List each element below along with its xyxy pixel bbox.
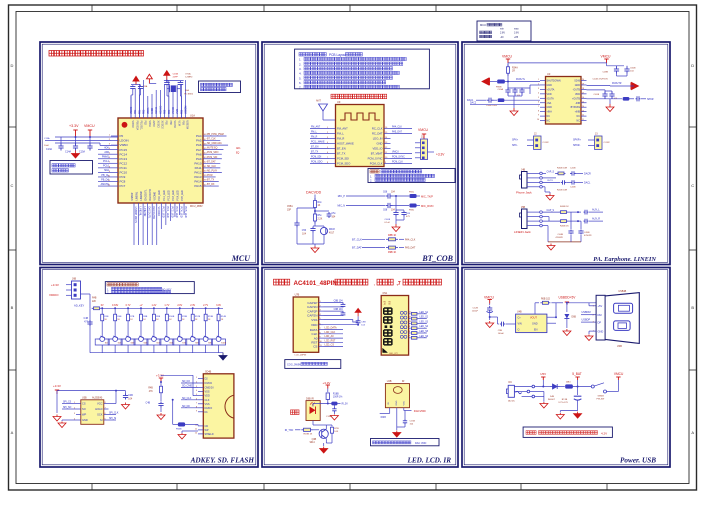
capacitor C14B ir: [326, 405, 338, 420]
svg-text:BT_EN: BT_EN: [337, 147, 346, 151]
svg-text:D9B IR: D9B IR: [306, 397, 314, 400]
PA right pin NC: [577, 115, 587, 118]
flash left pin WP: [74, 413, 87, 417]
svg-text:10: 10: [537, 119, 539, 121]
linein jack contact 3: [527, 220, 542, 223]
svg-text:BT_VBAT: BT_VBAT: [371, 152, 383, 156]
key switch S2B: [108, 334, 122, 353]
wire cap_s row: [542, 170, 557, 173]
svg-text:PB9: PB9: [182, 121, 184, 126]
key switch S1B: [95, 334, 109, 353]
svg-text:LCD_CLK: LCD_CLK: [325, 331, 336, 334]
svg-text:MCU: MCU: [480, 23, 486, 27]
svg-text:PC11: PC11: [120, 166, 128, 170]
LCD pin CLK: [311, 331, 343, 336]
regulator U4B: [516, 311, 547, 333]
svg-text:PCM_SYNC: PCM_SYNC: [368, 157, 383, 161]
PA left pin GND: [538, 84, 552, 87]
svg-text:VMCU: VMCU: [84, 124, 95, 128]
svg-text:C47A: C47A: [594, 93, 600, 96]
svg-text:S3B: S3B: [131, 343, 136, 345]
note box crystal: [199, 81, 241, 93]
BT module left pin PCM_SDO: [310, 162, 350, 166]
svg-text:+85: +85: [514, 36, 519, 39]
SD pin VSS: [196, 402, 210, 406]
DC jack DC4B: [506, 381, 521, 402]
adkey branch resistor R14B: [216, 304, 226, 334]
MCU left pin VSBO: [109, 143, 129, 147]
svg-text:9014: 9014: [310, 442, 316, 444]
capacitor C42B linein: [584, 209, 604, 215]
svg-text:PC13: PC13: [120, 157, 128, 161]
MCU bottom pin PC3_LED: [173, 190, 178, 218]
svg-text:PA15: PA15: [194, 184, 201, 188]
svg-text:USBDP: USBDP: [582, 319, 591, 322]
MCU top pin PB6: [169, 80, 171, 126]
wire usb 5v: [567, 303, 596, 306]
svg-text:BT_EN: BT_EN: [311, 147, 319, 149]
svg-text:PCM_SDI: PCM_SDI: [337, 157, 349, 161]
svg-text:PCM_CLK: PCM_CLK: [370, 162, 383, 166]
SD pin VSS: [196, 390, 210, 394]
svg-text:R5B: R5B: [104, 316, 109, 318]
svg-text:R41B 10R: R41B 10R: [557, 190, 568, 192]
svg-text:2.: 2.: [299, 62, 302, 66]
svg-text:PC3_LED: PC3_LED: [173, 190, 175, 201]
svg-text:PA11: PA11: [195, 166, 202, 170]
svg-text:BT_CLK: BT_CLK: [352, 237, 362, 241]
svg-text:GND: GND: [377, 142, 383, 146]
svg-text:POW: POW: [207, 175, 213, 177]
svg-text:C12B: C12B: [473, 308, 479, 310]
PA right pin -OUTB: [573, 88, 587, 91]
LCD pin VDD: [311, 323, 324, 327]
svg-text:1.: 1.: [299, 58, 302, 62]
svg-text:C16B: C16B: [173, 74, 179, 76]
linein jack contact 1: [527, 211, 542, 214]
BT module right pin LDO_IN: [373, 137, 391, 141]
svg-text:SPKR-: SPKR-: [573, 144, 581, 147]
svg-text:7: 7: [538, 106, 539, 108]
svg-text:PA13: PA13: [194, 175, 201, 179]
svg-text:R4B: R4B: [92, 298, 97, 300]
note heading LED panel: [274, 279, 442, 287]
power label VMCU usb panel: [484, 296, 495, 304]
svg-text:LINEINL: LINEINL: [136, 191, 138, 200]
svg-text:PC9: PC9: [120, 175, 126, 179]
wire to left edge: [44, 137, 55, 147]
ground PA left: [510, 108, 518, 116]
zone ticks right: [689, 127, 697, 370]
svg-text:LED_S6: LED_S6: [420, 336, 429, 338]
svg-text:PA4: PA4: [196, 134, 202, 138]
svg-text:C55A: C55A: [287, 205, 293, 208]
MCU top pin XOSCI: [156, 90, 158, 128]
svg-text:PA6: PA6: [196, 143, 202, 147]
svg-text:GND: GND: [532, 322, 538, 325]
ground mic: [311, 246, 319, 253]
PA right pin -INB: [575, 101, 586, 104]
LCD pin CAP2P: [307, 309, 323, 313]
power flag VDD lcd: [355, 308, 361, 316]
speaker arrow right: [631, 82, 639, 89]
DC jack contacts: [514, 385, 534, 398]
svg-text:2.2K: 2.2K: [318, 219, 323, 221]
svg-text:DACOUTL: DACOUTL: [148, 207, 151, 220]
PA right pin GND: [575, 84, 587, 87]
capacitor C15A: [79, 137, 93, 154]
key switch S7B: [173, 334, 187, 353]
svg-text:-OUTB: -OUTB: [573, 88, 581, 91]
svg-text:VOUT: VOUT: [530, 316, 537, 319]
svg-text:-INA: -INA: [547, 102, 552, 105]
svg-text:+V: +V: [139, 304, 142, 307]
svg-text:R8B 1K: R8B 1K: [388, 234, 397, 237]
svg-text:PCM_SDI: PCM_SDI: [207, 157, 218, 159]
MCU left pin PC12: [98, 160, 127, 165]
svg-text:C8A: C8A: [143, 85, 148, 88]
capacitor C47A: [587, 90, 608, 99]
svg-text:0.33V: 0.33V: [112, 304, 119, 307]
svg-text:AU25E40: AU25E40: [92, 396, 103, 399]
MCU bottom pin LINEINL: [136, 191, 141, 245]
svg-text:+OUTB: +OUTB: [572, 97, 580, 100]
BT module right pin RC_CLK: [372, 126, 412, 131]
svg-text:R14B: R14B: [221, 316, 227, 318]
IR receiver gnd pin: [393, 408, 401, 437]
BT module left pin FM_R: [310, 137, 344, 141]
power flag VMCU BT: [418, 128, 429, 139]
svg-text:12: 12: [582, 115, 584, 117]
MCU left pin PC11: [98, 165, 127, 170]
svg-text:AC/DC: AC/DC: [508, 400, 515, 403]
PA left pin NC: [537, 119, 550, 122]
capacitor C68: [383, 203, 396, 212]
svg-text:WP: WP: [82, 413, 86, 417]
SD pin CLK: [181, 397, 210, 402]
ground PA right: [606, 104, 614, 112]
wire lcd vdd: [324, 324, 360, 326]
ground linein: [547, 244, 555, 251]
BT module right pin VDD_IO: [372, 147, 390, 151]
USB pin DM: [593, 313, 602, 317]
key switch S10B: [212, 334, 227, 353]
diode D4B: [548, 384, 560, 401]
svg-text:VDDA: VDDA: [147, 107, 150, 114]
PA amplifier U3: [546, 72, 582, 124]
svg-text:ADK: ADK: [104, 146, 109, 149]
ground flash gnd pin: [58, 420, 76, 428]
MCU top pin USBDM: [186, 80, 188, 129]
svg-text:USB4B: USB4B: [618, 290, 626, 293]
svg-text:SD_CLK: SD_CLK: [207, 166, 216, 168]
switch SW4B: [591, 383, 606, 401]
resistor R4B series: [92, 298, 102, 310]
7seg pad circles: [400, 311, 407, 338]
flash right pin SI: [100, 418, 116, 422]
PA right pin BYPASS: [571, 106, 587, 109]
svg-text:HOLD: HOLD: [95, 407, 102, 411]
wire J6B to bus: [81, 294, 91, 308]
transistor Q4B: [310, 421, 329, 445]
svg-text:PB_CL: PB_CL: [101, 174, 109, 177]
svg-text:EN: EN: [534, 328, 538, 331]
svg-text:AD_PLAY: AD_PLAY: [207, 169, 218, 172]
svg-text:C+: C+: [518, 316, 522, 319]
svg-text:PB0/SDA: PB0/SDA: [135, 121, 138, 131]
ground battery filled: [574, 412, 582, 419]
svg-text:10uF: 10uF: [44, 145, 50, 147]
svg-text:Power. USB: Power. USB: [620, 457, 656, 465]
svg-text:+INB: +INB: [575, 111, 581, 114]
linein jack contact 2: [527, 215, 542, 218]
USB connector body: [596, 290, 639, 348]
power label +3.3V flash: [53, 384, 61, 394]
svg-text:SD_D3: SD_D3: [182, 380, 190, 383]
svg-text:C13A: C13A: [44, 137, 50, 140]
PA left pin -INA: [538, 101, 552, 104]
svg-text:PCL1: PCL1: [103, 160, 110, 163]
MCU top pin AVDD: [151, 94, 155, 127]
svg-text:min: min: [500, 28, 505, 31]
svg-text:AVDD: AVDD: [151, 107, 154, 114]
capacitor C14A: [65, 137, 78, 154]
svg-text:R7B: R7B: [130, 316, 135, 318]
svg-text:PC4_LED: PC4_LED: [180, 207, 183, 218]
LCD pin CAP1P: [307, 301, 323, 305]
capacitor C7A: [130, 85, 140, 119]
key switch S4B: [134, 334, 148, 353]
adkey top bus: [102, 307, 224, 309]
svg-text:SPKR+: SPKR+: [573, 139, 582, 142]
svg-text:PB5: PB5: [165, 109, 167, 114]
LCD pin CAP1N: [307, 305, 323, 309]
capacitor C45A: [508, 88, 525, 97]
wire linein L row: [542, 209, 559, 212]
svg-text:DACOUTR: DACOUTR: [152, 207, 155, 220]
svg-text:VDD: VDD: [205, 395, 210, 398]
wire power bus to MCU: [55, 136, 118, 145]
SD pin SHIELD: [195, 433, 214, 437]
svg-text:LED_S2: LED_S2: [420, 317, 429, 319]
svg-text:+INA: +INA: [547, 111, 553, 114]
ground adkey: [219, 353, 227, 361]
svg-text:LCD_48PIN: LCD_48PIN: [295, 355, 307, 357]
svg-text:PC1_LED: PC1_LED: [164, 190, 166, 201]
capacitor C14 crystal left: [164, 81, 170, 96]
note box power: [523, 427, 612, 437]
resistor R4: [314, 198, 323, 210]
MCU power spec table: [477, 21, 531, 41]
svg-text:PA14: PA14: [194, 180, 201, 184]
MCU top pin PB1: [139, 84, 141, 131]
svg-text:FM_ANT: FM_ANT: [337, 127, 348, 131]
svg-text:VDDIO: VDDIO: [49, 293, 59, 297]
svg-text:5.: 5.: [299, 76, 302, 80]
svg-text:1.2V: 1.2V: [151, 304, 156, 307]
svg-text:15P: 15P: [287, 210, 292, 212]
svg-text:USBDM: USBDM: [582, 311, 591, 314]
svg-text:C4B: C4B: [84, 318, 89, 320]
MCU bottom pin DACOUTL: [145, 189, 151, 245]
capacitor C12B: [472, 304, 493, 321]
adkey branch resistor R8B: [139, 304, 147, 334]
USB pin DP: [593, 320, 602, 324]
power label VMCU switch: [607, 372, 624, 392]
svg-text:PB5: PB5: [165, 121, 167, 126]
capacitor C15 crystal right: [178, 81, 184, 96]
power flag VMCU left: [502, 55, 513, 64]
resistor R40B: [557, 168, 568, 175]
svg-text:PW-SW: PW-SW: [597, 399, 606, 401]
key switch S3B: [121, 334, 135, 353]
svg-text:0.1uF: 0.1uF: [384, 222, 390, 224]
svg-text:16: 16: [582, 97, 584, 99]
wire usb gnd: [585, 331, 596, 340]
svg-text:+3.3V: +3.3V: [323, 381, 331, 385]
svg-text:PC5_LED: PC5_LED: [184, 207, 187, 218]
svg-text:22K: 22K: [92, 301, 97, 303]
svg-text:XOSCI: XOSCI: [156, 106, 158, 114]
svg-text:USBDM: USBDM: [186, 121, 188, 129]
svg-text:CS: CS: [82, 402, 86, 406]
svg-text:S10B: S10B: [221, 343, 227, 345]
svg-text:BT_DAT: BT_DAT: [207, 160, 216, 163]
svg-text:C9B: C9B: [361, 322, 366, 324]
svg-text:MIC_P: MIC_P: [338, 195, 346, 198]
wire dc main: [535, 386, 550, 388]
svg-text:PC2_LED: PC2_LED: [170, 207, 173, 218]
power label 5_BAT: [572, 372, 582, 388]
svg-text:VDD_IO: VDD_IO: [372, 147, 382, 151]
capacitor C67A: [384, 195, 398, 224]
net label USBDM: [581, 311, 596, 315]
svg-text:VSBO: VSBO: [120, 143, 129, 147]
wire VMCU rail: [508, 63, 607, 66]
svg-text:LDO_IN: LDO_IN: [373, 137, 383, 141]
svg-text:LCD_DATA: LCD_DATA: [325, 327, 338, 330]
capacitor C8A: [138, 85, 148, 118]
svg-text:CAP_S: CAP_S: [547, 209, 555, 212]
7seg digit 3: [383, 329, 393, 337]
power flag VDDIO top: [133, 76, 139, 84]
svg-text:R44B 1K: R44B 1K: [560, 206, 569, 208]
svg-text:PB2: PB2: [144, 121, 146, 126]
svg-text:R40B 10R: R40B 10R: [557, 168, 568, 170]
ground rail linein: [542, 226, 581, 242]
7seg corner marker: [383, 348, 388, 352]
svg-text:100uF: 100uF: [472, 311, 479, 313]
svg-text:PCM_SYNC: PCM_SYNC: [392, 157, 405, 159]
wire gnd pa left: [513, 96, 515, 108]
svg-text:1K: 1K: [318, 205, 321, 207]
svg-text:VSS: VSS: [205, 391, 210, 394]
PA right pin VDD: [575, 92, 587, 95]
wire hp row2 caps: [542, 180, 591, 184]
MCU top pin VDDIO: [131, 96, 133, 128]
svg-text:FM_R: FM_R: [311, 137, 318, 139]
svg-text:VMCU: VMCU: [601, 55, 612, 59]
svg-text:U5B: U5B: [82, 396, 87, 399]
svg-text:SD-B: SD-B: [574, 80, 580, 83]
LCD pin RST: [311, 339, 343, 344]
svg-text:C15B: C15B: [410, 421, 416, 423]
svg-text:VIN: VIN: [518, 322, 522, 325]
svg-text:X'TAL: X'TAL: [185, 73, 192, 76]
svg-text:19: 19: [582, 84, 584, 86]
7seg rotated top labels: [383, 300, 392, 304]
svg-text:C13A: C13A: [46, 148, 52, 151]
svg-text:DACVDD: DACVDD: [306, 191, 322, 195]
svg-text:SDA: SDA: [104, 169, 109, 172]
MCU top pin XOSCO: [160, 90, 162, 129]
note box adkey: [105, 282, 194, 295]
PA left pin +INA: [538, 110, 552, 113]
zone ticks left: [9, 127, 17, 370]
svg-text:NC: NC: [577, 115, 581, 118]
wire led anode: [313, 403, 329, 407]
svg-text:A: A: [691, 430, 694, 435]
PA left pin -OUTA: [538, 97, 554, 100]
svg-text:3: 3: [538, 88, 539, 90]
svg-text:DM: DM: [598, 313, 602, 317]
MCU left pin PC13: [98, 156, 127, 161]
capacitor C49B: [603, 66, 624, 74]
BT module right pin RC_DAT: [372, 131, 412, 136]
svg-text:IRRX: IRRX: [381, 417, 387, 419]
svg-text:BT_COB: BT_COB: [421, 254, 453, 263]
svg-text:VCOM: VCOM: [173, 121, 175, 128]
svg-text:D0/DO: D0/DO: [205, 407, 213, 410]
svg-text:C49B: C49B: [603, 72, 609, 74]
svg-text:47K: 47K: [149, 391, 154, 393]
svg-text:Pb 3M06: Pb 3M06: [184, 94, 194, 96]
svg-text:PWM1: PWM1: [102, 156, 110, 159]
svg-text:MCU: MCU: [231, 254, 251, 263]
BT module right pin PCM_SYNC: [368, 157, 412, 161]
svg-text:FM_ANT: FM_ANT: [311, 126, 321, 129]
svg-text:DACVDD: DACVDD: [414, 409, 426, 413]
wire right outb: [587, 82, 635, 86]
svg-text:IR: IR: [402, 380, 405, 383]
USB pin GND: [593, 329, 604, 333]
MCU left pin PC7: [98, 183, 126, 188]
SD pin VDD: [196, 394, 210, 398]
capacitor C55A: [287, 205, 315, 244]
svg-text:1: 1: [538, 79, 539, 81]
svg-text:8.8: 8.8: [388, 300, 392, 304]
svg-text:BYPASS: BYPASS: [571, 106, 581, 109]
svg-text:S5B: S5B: [156, 343, 161, 345]
svg-text:Q4B: Q4B: [312, 439, 317, 441]
svg-text:U7B: U7B: [295, 294, 300, 297]
svg-text:PC5_LED: PC5_LED: [182, 190, 184, 201]
LCD pin CAP2N: [307, 314, 323, 318]
antenna ANT1: [316, 100, 336, 121]
MCU left pin PC15: [98, 146, 127, 151]
svg-text:Phone Jack: Phone Jack: [516, 191, 532, 195]
svg-text:4: 4: [538, 92, 539, 94]
svg-text:RC_CLK: RC_CLK: [372, 127, 383, 131]
MCU right pin PA5: [196, 139, 220, 143]
svg-text:PCM_SDI: PCM_SDI: [311, 157, 322, 159]
capacitor C43B linein: [584, 218, 604, 224]
svg-text:SPK+: SPK+: [512, 139, 519, 142]
resistor R19B base: [285, 428, 319, 435]
svg-text:9: 9: [538, 115, 539, 117]
PA left pin NC: [538, 115, 550, 118]
MCU left pin PC8: [98, 178, 126, 183]
